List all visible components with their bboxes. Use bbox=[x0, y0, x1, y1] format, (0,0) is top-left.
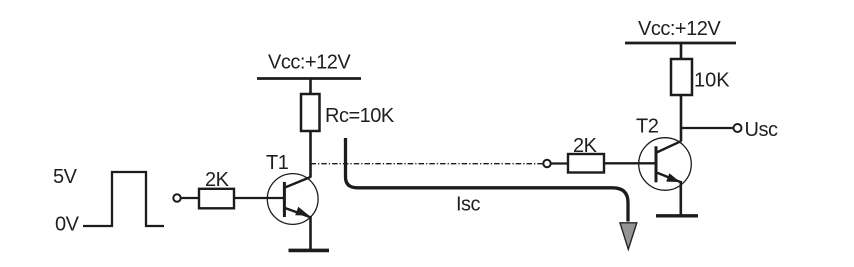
svg-text:Usc: Usc bbox=[745, 119, 778, 141]
wire R2 to T2 base bbox=[604, 162, 655, 164]
wire T1 emitter down bbox=[309, 216, 312, 250]
Isc arrowhead bbox=[620, 223, 637, 250]
ground bar T1 bbox=[289, 249, 330, 253]
svg-text:2K: 2K bbox=[205, 169, 230, 191]
svg-text:10K: 10K bbox=[694, 70, 730, 92]
Isc probe loop wire bbox=[346, 138, 629, 222]
resistor R2 2K bbox=[568, 154, 604, 173]
svg-text:Rc=10K: Rc=10K bbox=[325, 105, 395, 127]
output terminal Usc bbox=[734, 124, 742, 132]
wire R3 to Vcc bar bbox=[680, 43, 683, 60]
resistor R1 2K bbox=[199, 189, 234, 209]
wire collector node to output bbox=[681, 127, 734, 129]
ground bar T2 bbox=[656, 214, 698, 217]
Vcc rail (left) bbox=[257, 77, 361, 80]
input pulse waveform bbox=[83, 172, 164, 226]
svg-text:T2: T2 bbox=[636, 116, 659, 138]
wire T2 emitter down bbox=[679, 181, 682, 216]
svg-text:0V: 0V bbox=[55, 214, 80, 236]
wire T2 collector up to R3 bbox=[680, 95, 683, 142]
svg-text:Isc: Isc bbox=[456, 194, 481, 216]
wire Rc to Vcc bar bbox=[309, 78, 312, 94]
wire R1 to T1 base bbox=[234, 197, 284, 199]
svg-text:T1: T1 bbox=[266, 152, 289, 174]
transistor T1 bbox=[267, 174, 318, 225]
wire T1 collector up to Rc bbox=[309, 131, 312, 178]
wire node to R2 bbox=[551, 162, 568, 164]
input terminal node bbox=[173, 194, 180, 201]
node (open circle) bbox=[543, 160, 550, 167]
Vcc rail (right) bbox=[625, 42, 736, 45]
transistor T2 bbox=[639, 138, 692, 191]
resistor R3 10K bbox=[671, 59, 692, 95]
svg-text:Vcc:+12V: Vcc:+12V bbox=[638, 18, 721, 40]
svg-text:5V: 5V bbox=[53, 166, 78, 188]
svg-text:2K: 2K bbox=[573, 135, 598, 157]
svg-text:Vcc:+12V: Vcc:+12V bbox=[268, 52, 351, 74]
wire input to R1 bbox=[181, 197, 199, 199]
resistor Rc 10K bbox=[301, 94, 320, 131]
dashed feedback line bbox=[311, 163, 544, 165]
